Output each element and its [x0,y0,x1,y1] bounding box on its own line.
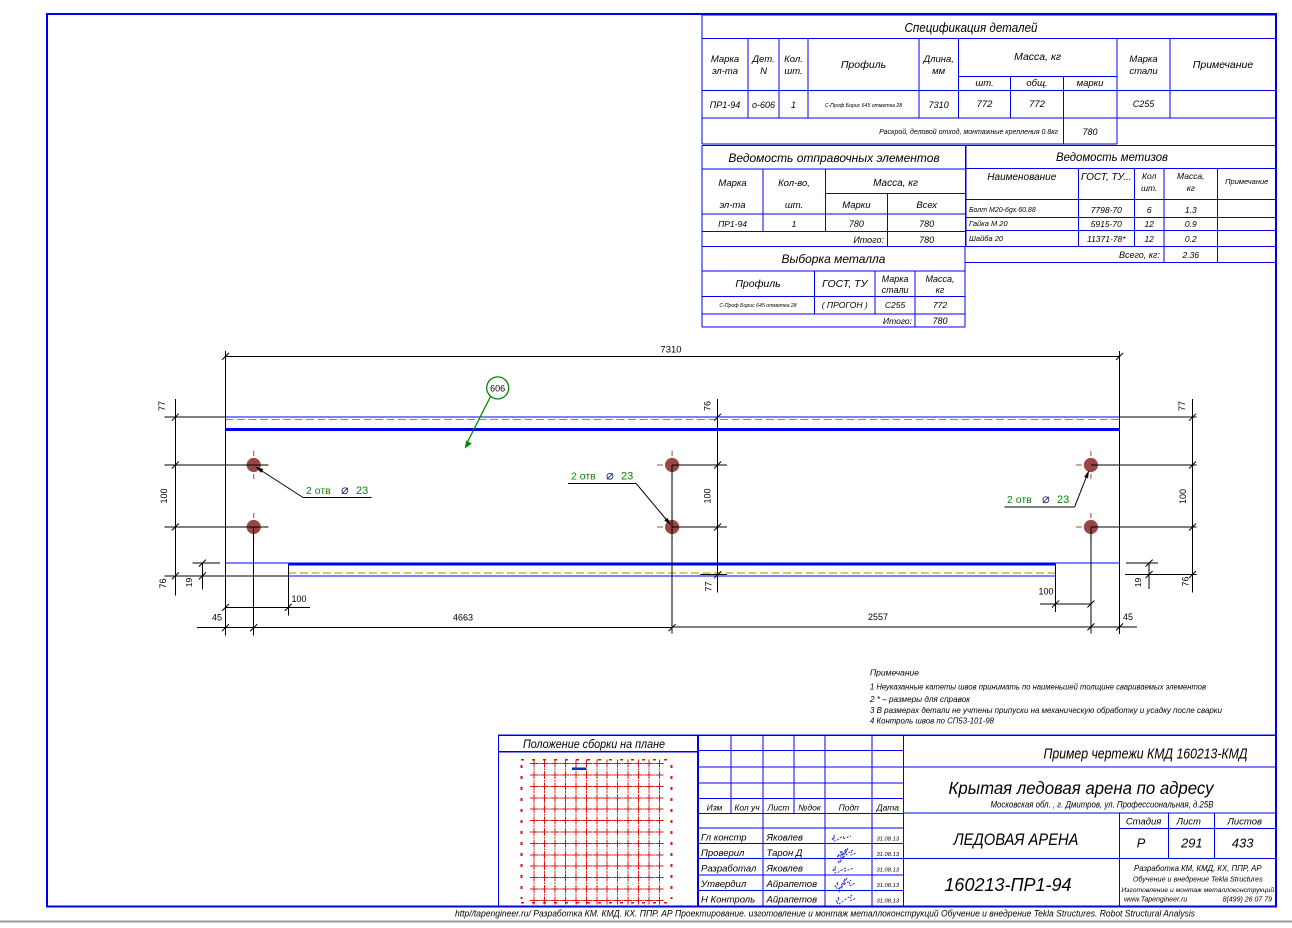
svg-text:ГОСТ, ТУ...: ГОСТ, ТУ... [1081,172,1132,183]
extension line: left hole column [253,527,255,636]
svg-text:Гл констр: Гл констр [701,833,747,844]
svg-text:2 * – размеры для справок: 2 * – размеры для справок [869,694,971,704]
svg-text:Подп: Подп [839,803,860,813]
title block stamp [698,735,1276,906]
extension line: left flange cut [287,566,289,616]
drawing: right notch vertical [1055,563,1057,576]
svg-text:С-Проф Борис 645 отметка 28: С-Проф Борис 645 отметка 28 [825,103,902,109]
svg-text:Листов: Листов [1226,817,1262,828]
svg-text:433: 433 [1232,836,1254,851]
left dimension 19 [201,563,203,589]
svg-text:общ.: общ. [1026,78,1047,89]
svg-text:Айрапетов: Айрапетов [766,879,818,890]
drawing: bottom flange hidden edge (dashed olive) [288,572,1055,574]
svg-text:о-606: о-606 [752,100,775,110]
svg-text:31.08.13: 31.08.13 [877,898,900,904]
svg-text:Н Контроль: Н Контроль [701,894,755,905]
svg-text:Изготовление и монтаж металлок: Изготовление и монтаж металлоконструкций [1121,886,1274,894]
svg-text:76: 76 [703,401,713,411]
svg-text:Крытая ледовая арена по адресу: Крытая ледовая арена по адресу [949,778,1215,798]
svg-text:Утвердил: Утвердил [700,879,747,890]
dimension 45 bottom-right [1091,626,1137,628]
svg-text:Итого:: Итого: [853,235,884,245]
plan: purlin position mark (blue) [572,768,586,770]
svg-text:Разработка КМ, КМД, КХ, ППР, А: Разработка КМ, КМД, КХ, ППР, АР [1134,864,1262,873]
svg-text:Кол.: Кол. [784,54,803,65]
svg-text:Айрапетов: Айрапетов [766,894,818,905]
svg-text:780: 780 [849,219,864,229]
svg-text:1: 1 [792,219,797,229]
svg-text:Стадия: Стадия [1126,817,1162,828]
dimension 100 bottom-left [226,606,311,608]
drawing: bottom web edge right notch [1056,562,1120,564]
table: Спецификация деталей [702,14,1276,16]
svg-text:780: 780 [919,235,934,245]
hole label left: 2 отв ø23 [256,467,372,498]
svg-text:Спецификация деталей: Спецификация деталей [905,20,1038,35]
svg-text:1.3: 1.3 [1185,205,1197,215]
svg-text:шт.: шт. [784,66,802,77]
hole C2 d23 [1076,513,1106,541]
svg-text:76: 76 [158,578,168,588]
assembly mark circle 606 [487,377,509,399]
drawing: top flange hidden edge (dashed olive) [226,419,1120,421]
svg-text:11371-78*: 11371-78* [1087,234,1126,244]
svg-text:100: 100 [703,488,713,503]
svg-text:Тарон Д: Тарон Д [767,848,803,859]
svg-text:С255: С255 [1133,99,1156,109]
svg-text:45: 45 [1123,612,1133,622]
hole label right: 2 отв ø23 [1004,470,1089,507]
svg-text:Изм: Изм [707,803,723,813]
svg-text:кг: кг [936,285,945,295]
svg-text:Яковлев: Яковлев [766,864,804,875]
svg-text:ЛЕДОВАЯ АРЕНА: ЛЕДОВАЯ АРЕНА [953,830,1079,849]
svg-text:3 В размерах детали не учтены: 3 В размерах детали не учтены припуски н… [870,705,1222,715]
svg-text:772: 772 [933,300,947,310]
svg-text:7798-70: 7798-70 [1091,205,1122,215]
svg-text:Кол уч: Кол уч [734,803,760,813]
svg-text:Наименование: Наименование [987,172,1056,183]
svg-text:шт.: шт. [1141,183,1157,193]
svg-text:Кол-во,: Кол-во, [778,178,810,189]
hole A1 d23 [239,451,269,479]
svg-text:http//tapengineer.ru/ Разраб: http//tapengineer.ru/ Разработка КМ. КМД… [455,909,1195,919]
svg-text:шт.: шт. [975,78,993,89]
svg-text:160213-ПР1-94: 160213-ПР1-94 [944,875,1071,895]
svg-text:6: 6 [1147,205,1152,215]
extension line: right flange cut [1055,566,1057,612]
extension line: middle hole column [671,465,673,634]
drawing: bottom flange lower edge (thin) [288,575,1055,577]
svg-text:5915-70: 5915-70 [1091,219,1122,229]
svg-text:8(499) 26 07 79: 8(499) 26 07 79 [1223,897,1273,904]
svg-text:Р: Р [1137,836,1146,851]
svg-text:Всего, кг:: Всего, кг: [1119,250,1161,260]
svg-text:12: 12 [1144,219,1154,229]
svg-text:100: 100 [1038,587,1053,597]
svg-text:N: N [760,66,767,77]
svg-text:7310: 7310 [660,345,681,356]
svg-text:Положение сборки на плане: Положение сборки на плане [523,739,665,751]
svg-text:100: 100 [159,488,169,503]
svg-text:Яковлев: Яковлев [766,833,804,844]
svg-text:2 отв: 2 отв [571,471,596,483]
svg-text:Масса, кг: Масса, кг [1014,51,1061,63]
svg-text:Масса,: Масса, [925,274,954,284]
svg-text:31.08.13: 31.08.13 [877,837,900,843]
drawing: top flange edge (thick blue) [226,428,1120,431]
svg-text:780: 780 [1082,127,1097,137]
svg-text:780: 780 [919,219,934,229]
svg-text:1: 1 [791,100,796,110]
drawing: purlin top flange visible edge (thin) [226,416,1120,418]
drawing: bottom flange edge (thick blue) [288,563,1055,566]
assembly mark leader arrow [467,397,491,445]
svg-text:Марка: Марка [711,54,739,65]
svg-text:4 Контроль швов по СП53-101-9: 4 Контроль швов по СП53-101-98 [870,716,994,726]
svg-text:2 отв: 2 отв [306,485,331,497]
svg-text:Разработал: Разработал [701,864,757,875]
svg-text:www.Tapengineer.ru: www.Tapengineer.ru [1124,897,1187,904]
svg-text:23: 23 [1057,494,1069,506]
extension line: right hole column [1090,527,1092,634]
svg-text:Раскрой, деловой отход, монтаж: Раскрой, деловой отход, монтажные крепле… [879,128,1058,136]
svg-text:77: 77 [157,401,167,411]
svg-text:Марка: Марка [718,178,746,189]
svg-text:шт.: шт. [785,200,803,211]
svg-text:Масса,: Масса, [1177,171,1205,181]
svg-text:Пример чертежи КМД 160213-КМ: Пример чертежи КМД 160213-КМД [1044,746,1248,763]
svg-text:76: 76 [1181,576,1191,586]
svg-text:стали: стали [882,285,909,295]
dimension 45 bottom-left [197,627,254,629]
bottom window gray line [0,921,1292,923]
svg-text:291: 291 [1180,836,1203,851]
svg-text:⌀: ⌀ [341,482,349,497]
svg-text:772: 772 [1029,99,1046,110]
svg-text:Лист: Лист [1175,817,1201,828]
svg-text:Московская обл. , г. Дмитров,: Московская обл. , г. Дмитров, ул. Профес… [991,800,1214,810]
svg-text:Длина,: Длина, [922,54,953,65]
svg-text:780: 780 [932,316,947,326]
svg-text:100: 100 [291,594,306,604]
svg-text:Примечание: Примечание [870,668,919,678]
svg-text:мм: мм [932,66,946,77]
drawing: bottom web edge left notch [226,562,289,564]
panel: Положение сборки на плане [499,735,699,906]
svg-text:Марки: Марки [842,200,871,211]
svg-text:19: 19 [184,578,194,588]
svg-text:( ПРОГОН ): ( ПРОГОН ) [822,300,868,310]
svg-text:ГОСТ, ТУ: ГОСТ, ТУ [822,278,868,290]
svg-text:77: 77 [704,581,714,591]
right dimension 19 [1148,563,1150,589]
drawing: left notch vertical [287,563,289,576]
dimension 100 bottom-right [1040,603,1091,605]
svg-text:Дата: Дата [876,803,900,813]
svg-text:кг: кг [1187,183,1195,193]
svg-text:31.08.13: 31.08.13 [877,852,900,858]
plan red grid [521,760,672,905]
svg-text:Марка: Марка [882,274,909,284]
hole C1 d23 [1076,451,1106,479]
svg-text:марки: марки [1077,78,1105,89]
svg-text:606: 606 [490,384,505,394]
svg-text:стали: стали [1129,66,1158,77]
svg-text:Выборка металла: Выборка металла [782,252,886,266]
svg-text:⌀: ⌀ [606,468,614,483]
svg-text:31.08.13: 31.08.13 [877,868,900,874]
dimension 4663 [254,627,672,629]
svg-text:Примечание: Примечание [1193,59,1254,71]
svg-text:2.36: 2.36 [1182,250,1200,260]
svg-text:772: 772 [977,99,994,110]
svg-text:Болт М20-6gх 60.88: Болт М20-6gх 60.88 [969,207,1036,214]
svg-text:С-Проф Борис 645 отметка 28: С-Проф Борис 645 отметка 28 [719,303,796,309]
svg-text:77: 77 [1177,401,1187,411]
svg-text:0.9: 0.9 [1185,219,1197,229]
hole B2 d23 [657,513,687,541]
dimension 2557 [672,626,1091,628]
svg-text:23: 23 [356,485,368,497]
svg-text:Гайка М 20: Гайка М 20 [969,219,1008,228]
dimension 7310 [226,355,1120,357]
svg-text:Примечание: Примечание [1225,177,1268,186]
svg-text:0.2: 0.2 [1185,234,1197,244]
svg-text:31.08.13: 31.08.13 [877,883,900,889]
svg-text:ПР1-94: ПР1-94 [710,100,741,110]
svg-text:19: 19 [1133,578,1143,588]
svg-text:Профиль: Профиль [841,59,886,71]
svg-text:23: 23 [621,471,633,483]
stamp right section [698,766,1276,768]
svg-text:ПР1-94: ПР1-94 [718,219,747,229]
svg-text:2 отв: 2 отв [1007,494,1032,506]
svg-text:Ведомость отправочных элементо: Ведомость отправочных элементов [728,151,939,165]
svg-text:1 Неуказанные катеты швов при: 1 Неуказанные катеты швов принимать по н… [870,682,1207,692]
table: Ведомость отправочных элементов [702,145,966,147]
svg-text:12: 12 [1144,234,1154,244]
svg-text:С255: С255 [885,300,906,310]
extension line: part left end [225,351,227,636]
table: Ведомость метизов [965,145,1276,147]
svg-text:Кол: Кол [1142,171,1157,181]
svg-text:100: 100 [1178,489,1188,504]
svg-text:Итого:: Итого: [883,316,913,326]
left dimension stack (77/100/76) [174,399,176,595]
svg-text:Дет.: Дет. [751,54,774,65]
svg-text:Обучение и внедрение Tekla St: Обучение и внедрение Tekla Structures [1133,875,1263,884]
svg-text:7310: 7310 [929,100,949,110]
svg-text:№док: №док [798,803,822,813]
svg-text:Шайба 20: Шайба 20 [969,234,1004,243]
middle dimension stack (76/100/77) [717,399,719,593]
svg-text:4663: 4663 [453,613,473,623]
svg-text:Ведомость метизов: Ведомость метизов [1056,150,1168,164]
svg-text:⌀: ⌀ [1042,491,1050,506]
hole label middle: 2 отв ø23 [568,468,671,526]
svg-text:Проверил: Проверил [701,848,745,859]
svg-text:Всех: Всех [916,200,938,211]
svg-text:эл-та: эл-та [719,200,745,211]
extension line: part right end [1119,351,1121,634]
svg-text:Профиль: Профиль [735,278,780,290]
svg-text:Марка: Марка [1129,54,1157,65]
svg-text:45: 45 [212,613,222,623]
svg-text:Масса, кг: Масса, кг [873,178,918,189]
svg-text:2557: 2557 [868,612,888,622]
signatures (blue) [832,835,856,904]
svg-text:эл-та: эл-та [712,66,738,77]
svg-text:Лист: Лист [767,803,790,813]
hole A2 d23 [239,513,269,541]
hole B1 d23 [657,451,687,479]
table: Выборка металла [702,246,965,248]
right dimension stack (77/100/76) [1192,399,1194,593]
